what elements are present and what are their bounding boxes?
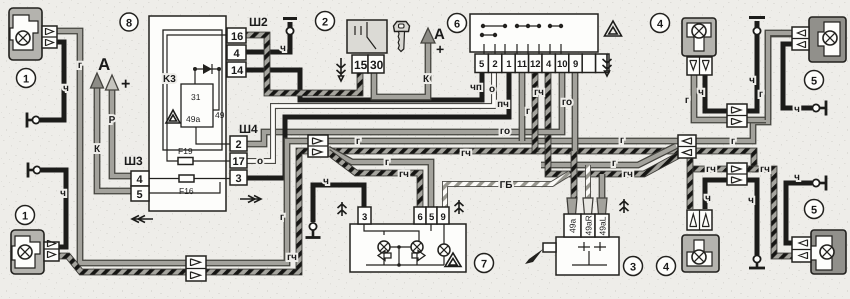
svg-text:о: о xyxy=(257,156,263,167)
wire K battery arrow to Sh3-5 (dark grey) xyxy=(91,73,132,191)
svg-text:49a: 49a xyxy=(186,114,200,124)
svg-text:49a: 49a xyxy=(568,219,578,233)
key icon xyxy=(394,22,410,52)
svg-text:5: 5 xyxy=(479,59,485,70)
svg-text:г: г xyxy=(526,106,530,117)
wire G row to cluster pin5 (grey) xyxy=(328,149,431,208)
svg-text:+: + xyxy=(121,76,130,93)
wire GB from cluster pin9 to weave (white striped) xyxy=(445,173,570,208)
svg-text:5: 5 xyxy=(811,76,817,88)
connector X5 top right xyxy=(727,104,747,127)
svg-text:8: 8 xyxy=(126,18,132,30)
svg-text:9: 9 xyxy=(573,59,578,70)
svg-text:2: 2 xyxy=(236,139,242,151)
position number circle at 633,266 xyxy=(624,257,643,276)
svg-text:о: о xyxy=(489,84,495,95)
svg-text:ч: ч xyxy=(698,87,704,98)
ground chevron arrow down left of ignition xyxy=(337,58,346,81)
svg-text:F19: F19 xyxy=(178,146,193,156)
wire Ch lamp4 top to ground (black) xyxy=(705,21,757,111)
svg-text:3: 3 xyxy=(630,262,636,274)
contacts inside switch 6 xyxy=(482,26,561,35)
hazard switch U6 body xyxy=(470,14,598,54)
svg-text:гч: гч xyxy=(706,164,716,175)
wire Ch from Sh2-4 to body ground (black) xyxy=(246,22,290,52)
ground symbol lamp1 top xyxy=(27,113,40,128)
svg-text:г: г xyxy=(280,212,284,223)
continuation arrow left xyxy=(132,216,153,223)
wire G lamp5 top feed vertical (grey) xyxy=(768,33,792,120)
svg-text:гч: гч xyxy=(760,164,770,175)
svg-text:K3: K3 xyxy=(163,74,176,85)
ground symbol lamp5 bottom xyxy=(812,176,826,191)
svg-text:12: 12 xyxy=(530,59,541,70)
svg-text:Ш4: Ш4 xyxy=(239,122,258,136)
wire Ch cluster pin3 to body ground (black) xyxy=(313,185,364,222)
lamp 1 top-left housing xyxy=(9,8,57,60)
fuse F16 xyxy=(179,175,194,182)
svg-text:ч: ч xyxy=(280,43,286,54)
svg-text:г: г xyxy=(612,158,616,169)
ground symbol lamp5 top xyxy=(812,101,826,116)
svg-text:ч: ч xyxy=(60,188,66,199)
svg-text:гч: гч xyxy=(534,87,544,98)
svg-text:ч: ч xyxy=(794,104,800,115)
pin row switch6 xyxy=(475,54,609,73)
pin boxes Sh2 xyxy=(227,15,268,77)
svg-text:14: 14 xyxy=(231,65,244,77)
cluster indicator lamp L xyxy=(378,241,390,253)
pin boxes Sh4 xyxy=(230,122,258,185)
wire Ch lamp4 bottom to ground (black) xyxy=(705,180,757,255)
lamp 4 top-right housing xyxy=(682,18,716,75)
svg-text:17: 17 xyxy=(233,156,245,168)
position number circle at 325,21 xyxy=(316,12,335,31)
ground chevron arrow up left of cluster xyxy=(338,202,347,216)
svg-text:гч: гч xyxy=(461,148,471,159)
svg-text:Р: Р xyxy=(109,115,116,126)
pin boxes Sh3 xyxy=(124,154,149,201)
svg-text:1: 1 xyxy=(23,74,29,86)
svg-text:1: 1 xyxy=(22,211,28,223)
svg-text:11: 11 xyxy=(517,59,528,70)
wire GCh vertical to lamp4 bottom xyxy=(687,154,694,209)
weave vertical pin11 switch6 G (grey) xyxy=(519,70,526,141)
diode D1 xyxy=(195,69,230,144)
svg-text:49: 49 xyxy=(215,110,225,120)
connector X6 bottom right xyxy=(727,163,747,185)
left arrow icon xyxy=(378,251,391,261)
wire GCh row to cluster pin6 (striped) xyxy=(328,152,420,208)
wire from Sh2-16 to ignition 15 (striped) xyxy=(246,35,360,93)
wire PCh from Sh4-3 to switch6 pin1 (black) xyxy=(247,70,509,178)
svg-text:15: 15 xyxy=(354,58,368,72)
position number circle at 26,78 xyxy=(17,69,36,88)
svg-text:ГБ: ГБ xyxy=(500,180,513,191)
ground chevron arrow down right of switch6 xyxy=(603,54,612,76)
svg-text:49aL: 49aL xyxy=(598,216,608,235)
wire GCh lamp1 bottom feed via left bottom run (striped) xyxy=(59,151,310,272)
mounting block inner box xyxy=(163,30,222,150)
turn signal switch U3 body xyxy=(525,237,619,275)
pin boxes ignition 15 30 xyxy=(352,55,384,73)
connector X4 right middle xyxy=(678,135,696,158)
lamp 5 top-right housing xyxy=(792,17,846,62)
svg-text:ч: ч xyxy=(794,172,800,183)
svg-text:5: 5 xyxy=(429,212,435,223)
wire Ch lamp1 bottom to body ground (black) xyxy=(41,170,66,247)
ground symbol lamp1 bottom xyxy=(28,163,41,178)
cluster indicator lamp R xyxy=(411,241,423,253)
wire Ch lamp5 top to ground (black) xyxy=(783,44,812,108)
connector lamp5 bottom xyxy=(792,237,811,262)
svg-text:4: 4 xyxy=(234,48,241,60)
wire Sh3-5 internal xyxy=(149,182,220,193)
position number circle at 25,215 xyxy=(16,206,35,225)
svg-text:г: г xyxy=(685,95,689,106)
ground symbol top center xyxy=(283,19,297,35)
ground chevron arrow up right of switch3 xyxy=(620,199,629,213)
connector lamp5 top xyxy=(792,27,809,50)
lamp 4 bottom-right housing xyxy=(682,210,719,272)
svg-text:пч: пч xyxy=(497,99,509,110)
svg-text:5: 5 xyxy=(811,205,817,217)
wire GCh row from pin4 of switch6 diagonal to X4 (striped) xyxy=(548,70,683,174)
wire Ch lamp1 top to body ground (black) xyxy=(40,42,64,120)
ground symbol top right 1 xyxy=(749,18,765,35)
svg-text:31: 31 xyxy=(191,92,201,102)
wire O from Sh4-17 to switch6 pin2 (white) xyxy=(247,70,494,161)
svg-text:ч: ч xyxy=(63,83,69,94)
wire Ch lamp5 bottom to ground (black) xyxy=(786,183,812,243)
connector lamp4 top xyxy=(687,57,712,75)
ground symbol bottom right 1 xyxy=(749,255,765,268)
cluster hazard lamp xyxy=(438,244,450,256)
right arrow icon xyxy=(412,251,425,261)
wire G row from pin9 of switch6 diagonal to X4 (grey) xyxy=(541,146,676,165)
svg-text:го: го xyxy=(562,97,572,108)
svg-text:4: 4 xyxy=(546,59,552,70)
svg-text:К: К xyxy=(423,74,430,85)
instrument cluster U7 box xyxy=(350,223,466,272)
weave vertical pin12 switch6 GCh (striped) xyxy=(532,70,539,152)
svg-text:4: 4 xyxy=(657,19,664,31)
connector X1 central xyxy=(308,135,328,157)
svg-text:г: г xyxy=(759,89,763,100)
svg-text:ч: ч xyxy=(705,193,711,204)
wire labels xyxy=(60,43,800,263)
wire 16-F19 internal xyxy=(167,35,230,161)
svg-text:F16: F16 xyxy=(179,186,194,196)
svg-text:чп: чп xyxy=(470,82,482,93)
svg-text:30: 30 xyxy=(370,58,384,72)
position number circle at 484,263 xyxy=(475,254,494,273)
svg-text:гч: гч xyxy=(399,169,409,180)
svg-text:+: + xyxy=(436,41,444,57)
hazard triangle icon right of switch6 xyxy=(605,21,622,36)
connector lamp1 bottom xyxy=(44,242,59,261)
svg-text:г: г xyxy=(731,136,735,147)
hazard triangle icon in block xyxy=(166,110,180,123)
wire from ignition 30 to battery arrow K (grey) xyxy=(374,28,435,97)
lamp 5 bottom-right housing xyxy=(792,230,846,274)
wire G lamp1 top feed via left bottom run (grey) xyxy=(57,31,310,263)
ground symbol cluster xyxy=(306,223,321,238)
svg-text:А: А xyxy=(98,55,110,74)
svg-text:6: 6 xyxy=(454,19,460,31)
wire R battery arrow to Sh3-4 (light grey) xyxy=(106,75,132,176)
svg-text:3: 3 xyxy=(362,212,367,223)
svg-text:16: 16 xyxy=(231,31,243,43)
mounting block U8 outer box xyxy=(132,16,261,223)
hazard triangle icon in cluster xyxy=(445,253,461,267)
svg-text:ч: ч xyxy=(748,195,754,206)
svg-text:г: г xyxy=(620,135,624,146)
connector lamp1 top xyxy=(42,26,57,48)
svg-text:6: 6 xyxy=(418,212,423,223)
svg-text:4: 4 xyxy=(663,262,670,274)
svg-text:1: 1 xyxy=(506,59,512,70)
position number circle at 660,23 xyxy=(651,14,670,33)
ground chevron arrow up right of cluster xyxy=(455,200,464,214)
svg-text:г: г xyxy=(356,136,360,147)
ignition switch U2 body xyxy=(347,20,387,53)
position number circle at 129,22 xyxy=(120,13,138,31)
svg-text:3: 3 xyxy=(236,173,242,185)
svg-text:гч: гч xyxy=(623,169,633,180)
svg-text:9: 9 xyxy=(441,212,446,223)
svg-text:гч: гч xyxy=(287,252,297,263)
svg-text:ч: ч xyxy=(749,75,755,86)
connector X2 on bottom-left runs xyxy=(186,256,206,281)
wire G feed row from connector X1 to right lamps (grey) xyxy=(328,34,792,141)
svg-text:4: 4 xyxy=(137,174,144,186)
continuation arrow right xyxy=(240,196,261,203)
svg-text:49aR: 49aR xyxy=(584,215,594,235)
position number circle at 814,80 xyxy=(805,71,824,90)
position number circle at 814,209 xyxy=(805,200,824,219)
svg-text:7: 7 xyxy=(481,259,487,271)
svg-text:10: 10 xyxy=(557,59,568,70)
lamp 1 bottom-left housing xyxy=(11,230,59,274)
wire G from lamp4 top to connector X5 (grey) xyxy=(694,75,766,120)
svg-text:5: 5 xyxy=(137,189,143,201)
wire GO from Sh4-2 to switch6 pin10 (grey) xyxy=(247,70,562,144)
wire Sh3-4 to F16 to Sh4-3 xyxy=(149,178,230,180)
pin boxes cluster xyxy=(358,207,449,224)
relay K3 box xyxy=(181,84,213,127)
svg-text:г: г xyxy=(385,157,389,168)
svg-text:го: го xyxy=(500,126,510,137)
wire ChP from Sh2-14 to switch6 pin5 (black) xyxy=(246,70,482,100)
position number circle at 457,23 xyxy=(448,14,467,33)
position number circle at 666,266 xyxy=(657,257,676,276)
connector lamp4 bottom xyxy=(687,210,712,230)
cluster internal wiring xyxy=(364,223,444,265)
svg-text:Ш3: Ш3 xyxy=(124,154,143,168)
fuse F19 xyxy=(178,158,193,165)
svg-text:г: г xyxy=(78,60,82,71)
wire to 49a of switch3 (striped) xyxy=(567,70,577,215)
svg-text:2: 2 xyxy=(322,17,328,29)
wire GCh feed row from connector X1 to bottom right lamps (striped) xyxy=(328,151,792,256)
wire to 49aR of switch3 (white striped) xyxy=(583,165,593,215)
pin boxes switch3 49a 49aR 49aL xyxy=(564,214,609,237)
svg-text:ч: ч xyxy=(323,176,329,187)
wire to 49aL of switch3 (grey) xyxy=(597,174,607,215)
svg-text:К: К xyxy=(94,144,101,155)
svg-text:2: 2 xyxy=(492,59,497,70)
stalk lever icon xyxy=(543,243,556,252)
svg-text:Ш2: Ш2 xyxy=(249,15,268,29)
